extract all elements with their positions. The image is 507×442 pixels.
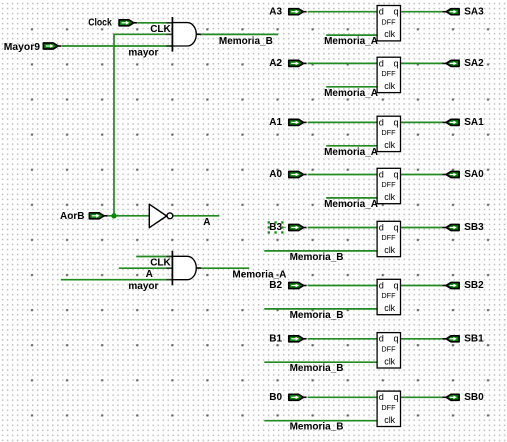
svg-text:Memoria_B: Memoria_B <box>290 252 344 263</box>
wire Clock to AND gate mayor (CLK input) <box>137 22 172 24</box>
output pin SB0 <box>442 394 459 400</box>
input pin B3 <box>289 225 307 231</box>
wire gate2 output, net Memoria_A <box>200 267 249 269</box>
svg-text:B2: B2 <box>269 280 282 291</box>
wire clk net Memoria_A to DFF4 <box>326 197 377 199</box>
svg-text:clk: clk <box>384 245 395 255</box>
svg-text:DFF: DFF <box>381 345 396 354</box>
gate1 black input stubs <box>166 23 172 46</box>
svg-text:clk: clk <box>384 29 395 39</box>
input pin B0 <box>289 394 307 400</box>
wire DFF1 q output to SA3 <box>401 11 443 13</box>
wire clk net Memoria_A to DFF3 <box>326 145 377 147</box>
wire DFF3 q output to SA1 <box>401 121 443 123</box>
D flip-flop DFF1 <box>377 6 400 41</box>
op: AND gate U1 (instance mayor, top) <box>172 17 200 52</box>
svg-text:B0: B0 <box>269 392 282 403</box>
svg-text:d: d <box>379 7 384 17</box>
svg-text:Memoria_A: Memoria_A <box>324 199 378 210</box>
svg-text:DFF: DFF <box>381 233 396 242</box>
wire A2 to DFF2 d input <box>308 62 378 64</box>
wire B0 to DFF8 d input <box>308 396 378 398</box>
output pin SA3 <box>442 9 459 15</box>
svg-text:clk: clk <box>384 192 395 202</box>
wire A0 to DFF4 d input <box>308 174 378 176</box>
svg-text:d: d <box>379 117 384 127</box>
svg-text:clk: clk <box>384 303 395 313</box>
svg-text:q: q <box>394 392 399 402</box>
svg-text:B1: B1 <box>269 334 282 345</box>
svg-text:Mayor9: Mayor9 <box>4 42 41 53</box>
svg-text:d: d <box>379 169 384 179</box>
svg-text:Memoria_B: Memoria_B <box>290 422 344 433</box>
wire stub mayor input of gate2 <box>61 279 173 281</box>
junction node on AorB wire <box>111 213 116 218</box>
svg-text:q: q <box>394 169 399 179</box>
svg-text:mayor: mayor <box>128 281 158 292</box>
svg-text:SB2: SB2 <box>464 280 484 291</box>
wire clk net Memoria_B to DFF8 <box>264 420 377 422</box>
wire DFF7 q output to SB1 <box>401 338 443 340</box>
input pin B2 <box>289 283 307 289</box>
svg-text:SA1: SA1 <box>464 117 484 128</box>
svg-text:Memoria_A: Memoria_A <box>324 147 378 158</box>
svg-text:CLK: CLK <box>150 24 171 35</box>
svg-text:q: q <box>394 222 399 232</box>
D flip-flop DFF4 <box>377 168 400 203</box>
input pin A2 <box>289 60 307 66</box>
wire clk net Memoria_B to DFF5 <box>264 250 377 252</box>
svg-text:q: q <box>394 280 399 290</box>
svg-text:clk: clk <box>384 140 395 150</box>
svg-text:A1: A1 <box>269 117 282 128</box>
op: AND gate U2 (instance mayor, bottom) <box>172 251 200 286</box>
wire AorB pin to inverter input <box>107 215 150 217</box>
wire inverter output, net A <box>173 215 219 217</box>
svg-text:SA2: SA2 <box>464 58 484 69</box>
wire B3 to DFF5 d input <box>308 227 378 229</box>
wire from AorB junction up to AND gate middle input <box>114 34 172 216</box>
output pin SB1 <box>442 336 459 342</box>
svg-text:SB1: SB1 <box>464 334 484 345</box>
svg-text:d: d <box>379 58 384 68</box>
D flip-flop DFF8 <box>377 391 400 426</box>
svg-text:AorB: AorB <box>60 211 84 222</box>
svg-text:DFF: DFF <box>381 180 396 189</box>
wire clk net Memoria_A to DFF2 <box>326 86 377 88</box>
input pin Clock <box>119 20 137 26</box>
svg-text:DFF: DFF <box>381 128 396 137</box>
wire stub A input of gate2 <box>119 267 173 269</box>
wire stub CLK input of gate2 <box>136 256 172 258</box>
wire DFF2 q output to SA2 <box>401 62 443 64</box>
svg-text:q: q <box>394 334 399 344</box>
svg-text:mayor: mayor <box>128 48 158 59</box>
svg-text:Memoria_A: Memoria_A <box>324 36 378 47</box>
wire DFF6 q output to SB2 <box>401 285 443 287</box>
wire A3 to DFF1 d input <box>308 11 378 13</box>
output pin SB2 <box>442 283 459 289</box>
wire A1 to DFF3 d input <box>308 121 378 123</box>
svg-text:SB3: SB3 <box>464 222 484 233</box>
svg-text:d: d <box>379 334 384 344</box>
input pin B1 <box>289 336 307 342</box>
D flip-flop DFF6 <box>377 279 400 314</box>
svg-text:A2: A2 <box>269 58 282 69</box>
svg-text:q: q <box>394 117 399 127</box>
svg-text:q: q <box>394 58 399 68</box>
wire Mayor9 to AND gate mayor (bottom input) <box>62 45 173 47</box>
svg-text:Memoria_B: Memoria_B <box>290 310 344 321</box>
output pin SB3 <box>442 225 459 231</box>
svg-text:A: A <box>203 217 210 228</box>
svg-text:clk: clk <box>384 415 395 425</box>
svg-text:CLK: CLK <box>150 257 171 268</box>
svg-text:DFF: DFF <box>381 17 396 26</box>
svg-text:SB0: SB0 <box>464 392 484 403</box>
svg-text:DFF: DFF <box>381 403 396 412</box>
input pin Mayor9 <box>43 43 61 49</box>
wire B1 to DFF7 d input <box>308 338 378 340</box>
output pin SA2 <box>442 60 459 66</box>
gate2 black input stubs <box>166 257 172 280</box>
input pin A0 <box>289 172 307 178</box>
input pin A1 <box>289 119 307 125</box>
svg-text:q: q <box>394 7 399 17</box>
svg-text:A0: A0 <box>269 169 282 180</box>
input pin AorB <box>89 213 107 219</box>
wire B2 to DFF6 d input <box>308 285 378 287</box>
svg-text:Memoria_B: Memoria_B <box>290 363 344 374</box>
svg-text:Clock: Clock <box>88 17 112 28</box>
wire clk net Memoria_B to DFF7 <box>264 361 377 363</box>
svg-text:clk: clk <box>384 81 395 91</box>
D flip-flop DFF3 <box>377 116 400 151</box>
svg-text:A: A <box>146 269 153 280</box>
wire DFF4 q output to SA0 <box>401 174 443 176</box>
svg-text:DFF: DFF <box>381 69 396 78</box>
svg-text:SA3: SA3 <box>464 6 484 17</box>
wire gate1 output, net Memoria_B <box>200 33 278 35</box>
svg-text:SA0: SA0 <box>464 169 484 180</box>
svg-text:d: d <box>379 222 384 232</box>
input pin A3 <box>289 9 307 15</box>
svg-text:Memoria_A: Memoria_A <box>232 270 286 281</box>
output pin SA0 <box>442 172 459 178</box>
output pin SA1 <box>442 119 459 125</box>
svg-text:clk: clk <box>384 356 395 366</box>
D flip-flop DFF7 <box>377 333 400 368</box>
inverter (NOT gate) on net AorB <box>149 204 173 228</box>
svg-text:A3: A3 <box>269 6 282 17</box>
wire clk net Memoria_A to DFF1 <box>326 34 377 36</box>
D flip-flop DFF2 <box>377 57 400 92</box>
svg-text:DFF: DFF <box>381 291 396 300</box>
selection handles around label B3 <box>268 221 287 233</box>
svg-text:d: d <box>379 392 384 402</box>
svg-text:Memoria_B: Memoria_B <box>219 36 273 47</box>
wire clk net Memoria_B to DFF6 <box>264 308 377 310</box>
D flip-flop DFF5 <box>377 221 400 256</box>
svg-text:Memoria_A: Memoria_A <box>324 88 378 99</box>
wire DFF5 q output to SB3 <box>401 227 443 229</box>
svg-text:d: d <box>379 280 384 290</box>
wire DFF8 q output to SB0 <box>401 396 443 398</box>
